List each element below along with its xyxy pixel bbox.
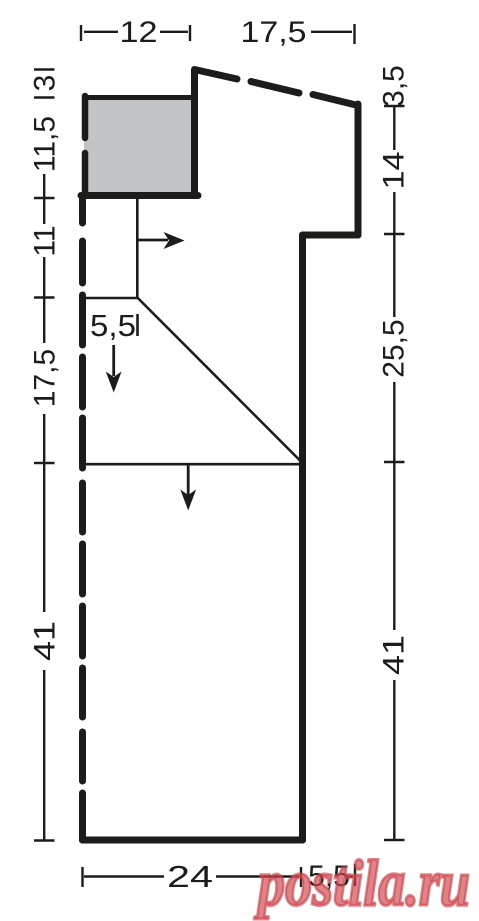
placket bottom thin horizontal <box>81 297 139 300</box>
svg-text:3: 3 <box>29 75 62 92</box>
sleeve edge thick vertical <box>355 104 362 235</box>
collar patch left dashed border (fold line upper dashes) <box>82 96 89 138</box>
svg-text:12: 12 <box>120 16 158 49</box>
neck edge thick vertical <box>191 70 198 195</box>
waist thin horizontal <box>81 463 304 466</box>
shoulder dashed slope <box>195 70 359 106</box>
side seam thick vertical <box>299 235 306 840</box>
neckline diagonal <box>138 298 303 464</box>
knit direction arrow down (lower) <box>180 465 196 511</box>
svg-text:5,5: 5,5 <box>90 308 136 343</box>
top dimension line <box>81 24 355 44</box>
underarm step <box>303 232 359 239</box>
svg-text:41: 41 <box>378 635 411 675</box>
svg-text:41: 41 <box>29 621 62 661</box>
bottom dimension line <box>83 864 356 887</box>
collar patch top border <box>82 95 194 100</box>
right dimension line <box>384 106 405 840</box>
knit direction arrow down (upper) <box>106 345 122 393</box>
svg-text:3,5: 3,5 <box>378 65 411 107</box>
collar patch bottom border <box>81 192 198 199</box>
svg-text:postila.ru: postila.ru <box>254 847 470 920</box>
knit direction arrow right <box>138 232 185 249</box>
svg-text:25,5: 25,5 <box>378 319 411 377</box>
hem thick line <box>83 837 303 844</box>
fold dashed line <box>79 198 86 840</box>
left dimension line <box>34 70 55 841</box>
tick for 5,5 interior <box>136 314 139 336</box>
gray collar patch fill <box>84 97 194 195</box>
svg-text:24: 24 <box>167 859 213 894</box>
svg-text:17,5: 17,5 <box>29 349 62 407</box>
placket thin vertical <box>136 195 139 298</box>
svg-text:11: 11 <box>29 225 62 256</box>
svg-text:11,5: 11,5 <box>29 116 62 172</box>
svg-text:17,5: 17,5 <box>241 16 307 49</box>
svg-text:14: 14 <box>378 152 411 190</box>
